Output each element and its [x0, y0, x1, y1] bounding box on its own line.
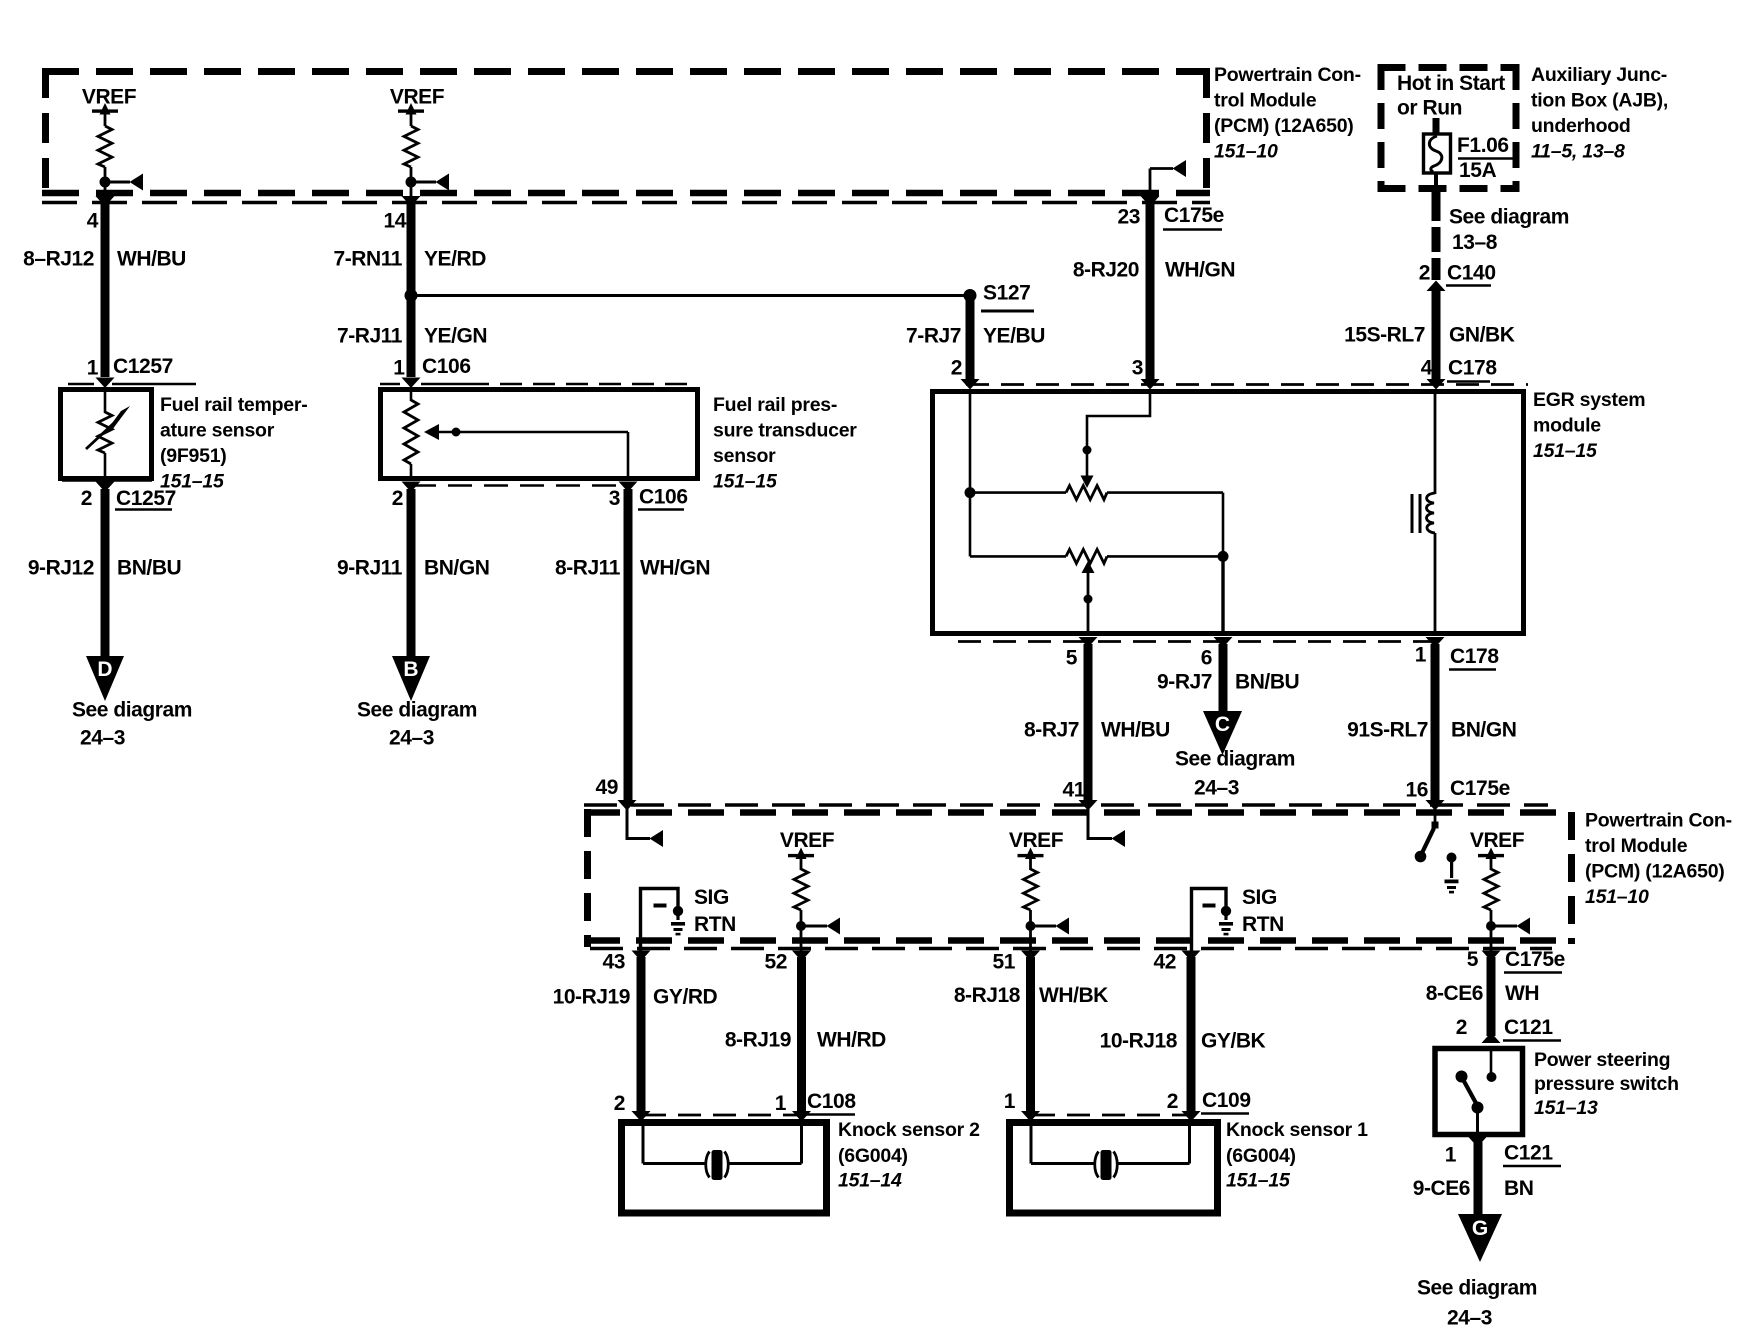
connector C121 pin 1 — [1468, 1137, 1487, 1148]
svg-text:See diagram: See diagram — [1417, 1277, 1537, 1300]
floating ground (pin 16) — [1445, 853, 1459, 894]
svg-text:49: 49 — [595, 776, 618, 799]
wire 8-RJ20 WH/GN (pin 23) — [1149, 169, 1152, 203]
connector line C175e below bottom PCM — [590, 947, 1552, 950]
svg-text:GY/RD: GY/RD — [653, 986, 718, 1009]
svg-text:G: G — [1472, 1217, 1488, 1240]
wire 7-RJ7 YE/BU — [966, 296, 975, 385]
svg-text:151–15: 151–15 — [1533, 440, 1598, 462]
svg-text:C175e: C175e — [1164, 204, 1224, 227]
svg-text:2: 2 — [1456, 1016, 1467, 1039]
svg-text:Power steering: Power steering — [1534, 1049, 1670, 1071]
svg-text:1: 1 — [393, 357, 405, 380]
svg-text:C121: C121 — [1504, 1016, 1553, 1039]
svg-text:BN/BU: BN/BU — [1235, 671, 1299, 694]
svg-text:151–14: 151–14 — [838, 1170, 902, 1192]
svg-text:C1257: C1257 — [116, 487, 176, 510]
svg-text:4: 4 — [1421, 357, 1433, 380]
svg-text:pressure switch: pressure switch — [1534, 1073, 1679, 1095]
pin 6 internal lead — [1221, 556, 1224, 631]
svg-text:VREF: VREF — [390, 86, 445, 109]
PCM top module box (dashed) — [42, 68, 1210, 196]
thermistor symbol (9F951) — [98, 412, 112, 453]
svg-text:C121: C121 — [1504, 1142, 1553, 1165]
wire 8-CE6 WH — [1487, 957, 1496, 1036]
svg-text:8-RJ18: 8-RJ18 — [954, 984, 1021, 1007]
svg-text:WH: WH — [1505, 982, 1539, 1005]
svg-text:sure transducer: sure transducer — [713, 420, 857, 442]
wire 9-RJ11 BN/GN — [407, 489, 416, 657]
svg-text:52: 52 — [764, 951, 787, 974]
svg-text:9-RJ7: 9-RJ7 — [1157, 671, 1212, 694]
svg-text:EGR system: EGR system — [1533, 389, 1645, 411]
svg-text:24–3: 24–3 — [1447, 1307, 1492, 1328]
svg-text:151–13: 151–13 — [1534, 1097, 1598, 1119]
svg-text:C175e: C175e — [1450, 777, 1510, 800]
svg-text:3: 3 — [609, 487, 620, 510]
svg-text:13–8: 13–8 — [1452, 231, 1498, 254]
wire 8-RJ11 WH/GN — [624, 489, 633, 803]
svg-text:RTN: RTN — [1242, 913, 1284, 936]
wire 7-RN11 YE/RD — [407, 203, 416, 296]
svg-text:C175e: C175e — [1505, 948, 1565, 971]
svg-text:Fuel rail pres-: Fuel rail pres- — [713, 394, 837, 416]
svg-text:F1.06: F1.06 — [1457, 134, 1509, 157]
knock sensor 2 piezo element — [643, 1126, 802, 1180]
svg-text:11–5, 13–8: 11–5, 13–8 — [1531, 141, 1625, 163]
wire 15S-RL7 GN/BK — [1432, 288, 1441, 385]
svg-text:tion Box (AJB),: tion Box (AJB), — [1531, 90, 1668, 112]
svg-text:15A: 15A — [1459, 159, 1497, 182]
svg-text:151–10: 151–10 — [1214, 141, 1278, 163]
svg-text:See diagram: See diagram — [72, 699, 192, 722]
svg-text:2: 2 — [951, 357, 962, 380]
connector C121 pin 2 — [1482, 1033, 1501, 1044]
off-page arrow D — [86, 656, 124, 701]
wire 9-RJ12 BN/BU — [101, 489, 110, 657]
svg-text:2: 2 — [614, 1092, 625, 1115]
splice junction dot on wire 14 — [405, 289, 418, 302]
internal arrow pin 5 — [1491, 925, 1517, 928]
svg-text:See diagram: See diagram — [357, 699, 477, 722]
Auxiliary Junction Box (dashed) — [1378, 64, 1520, 192]
svg-text:8-CE6: 8-CE6 — [1426, 982, 1483, 1005]
resistor VREF pull-up (pin 4) — [98, 126, 112, 167]
EGR pin 2 internal lead — [969, 389, 972, 493]
svg-text:C178: C178 — [1448, 357, 1497, 380]
EGR internal resistor (upper) — [970, 491, 1066, 494]
junction dot pin14 — [406, 177, 417, 188]
svg-text:C1257: C1257 — [113, 355, 173, 378]
connector C109 — [1032, 1114, 1189, 1117]
svg-text:1: 1 — [1445, 1144, 1457, 1167]
svg-text:151–10: 151–10 — [1585, 886, 1649, 908]
svg-text:7-RJ7: 7-RJ7 — [906, 325, 961, 348]
svg-text:1: 1 — [1004, 1090, 1016, 1113]
pin 49 connector arrow — [618, 800, 637, 811]
svg-text:(PCM) (12A650): (PCM) (12A650) — [1585, 861, 1725, 883]
wiper arrow — [438, 431, 628, 434]
svg-text:41: 41 — [1062, 779, 1085, 802]
resistor VREF pull-up (pin 52) — [794, 869, 808, 910]
svg-text:43: 43 — [602, 951, 625, 974]
svg-text:WH/BU: WH/BU — [1101, 719, 1170, 742]
pin 4 connector arrow — [96, 196, 115, 207]
svg-text:YE/GN: YE/GN — [424, 325, 487, 348]
wire 7-RJ11 YE/GN — [407, 296, 416, 377]
svg-text:SIG: SIG — [1242, 886, 1277, 909]
svg-text:16: 16 — [1405, 779, 1428, 802]
wire 8-RJ19 WH/RD — [797, 957, 806, 1114]
ground SIG RTN (pin 43) — [641, 889, 686, 953]
connector line C175e above bottom PCM — [584, 803, 1548, 806]
svg-text:WH/GN: WH/GN — [640, 557, 710, 580]
svg-text:VREF: VREF — [1470, 829, 1525, 852]
svg-text:SIG: SIG — [694, 886, 729, 909]
Knock sensor 2 box — [622, 1123, 827, 1214]
svg-text:8-RJ19: 8-RJ19 — [725, 1029, 791, 1052]
svg-text:15S-RL7: 15S-RL7 — [1344, 324, 1425, 347]
EGR system module box — [933, 392, 1524, 634]
svg-text:5: 5 — [1467, 948, 1479, 971]
internal switch pin 16 — [1434, 806, 1437, 822]
svg-text:5: 5 — [1066, 647, 1078, 670]
resistor VREF pull-up (pin 14) — [404, 126, 418, 167]
svg-text:ature sensor: ature sensor — [160, 420, 275, 442]
wire 91S-RL7 BN/GN — [1431, 644, 1440, 803]
connector line C175e under top PCM — [42, 201, 1210, 204]
label Fuel rail temperature sensor — [160, 394, 307, 493]
wire 10-RJ19 GY/RD — [637, 957, 646, 1114]
Knock sensor 1 box — [1010, 1123, 1218, 1214]
svg-text:3: 3 — [1132, 357, 1143, 380]
pin 16 connector arrow — [1426, 800, 1445, 811]
svg-text:sensor: sensor — [713, 445, 776, 467]
svg-text:1: 1 — [1415, 644, 1427, 667]
svg-text:8-RJ11: 8-RJ11 — [555, 557, 621, 580]
connector C108 — [643, 1114, 800, 1117]
svg-text:(6G004): (6G004) — [838, 1145, 908, 1167]
internal arrow pin 49 — [627, 806, 650, 839]
PCM label (top right) — [1214, 64, 1361, 163]
connector C140 pin 2 — [1427, 281, 1446, 292]
svg-text:2: 2 — [81, 487, 92, 510]
PCM bottom module box (dashed) — [584, 809, 1572, 947]
Knock sensor 2 label — [838, 1119, 980, 1192]
svg-text:7-RN11: 7-RN11 — [333, 248, 402, 271]
svg-text:C106: C106 — [639, 486, 688, 509]
wire 9-RJ7 BN/BU — [1219, 644, 1228, 713]
potentiometer resistor — [404, 400, 418, 464]
svg-text:WH/BK: WH/BK — [1039, 984, 1108, 1007]
svg-text:2: 2 — [1419, 262, 1430, 285]
svg-text:24–3: 24–3 — [389, 727, 434, 750]
svg-text:C140: C140 — [1447, 262, 1496, 285]
fuse F1.06 15A — [1424, 118, 1451, 173]
svg-text:Powertrain Con-: Powertrain Con- — [1585, 810, 1732, 832]
svg-text:YE/RD: YE/RD — [424, 248, 486, 271]
svg-text:91S-RL7: 91S-RL7 — [1347, 719, 1428, 742]
svg-text:7-RJ11: 7-RJ11 — [337, 325, 403, 348]
svg-text:24–3: 24–3 — [80, 727, 125, 750]
internal arrow pin 4 — [105, 181, 130, 184]
svg-text:underhood: underhood — [1531, 115, 1631, 137]
svg-text:8–RJ12: 8–RJ12 — [23, 248, 94, 271]
svg-text:151–15: 151–15 — [1226, 1170, 1291, 1192]
svg-text:See diagram: See diagram — [1449, 206, 1569, 229]
svg-text:Knock sensor 1: Knock sensor 1 — [1226, 1119, 1368, 1141]
Knock sensor 1 label — [1226, 1119, 1368, 1192]
wire to S127 — [411, 294, 970, 297]
svg-text:6: 6 — [1201, 647, 1212, 670]
wire 8-RJ7 WH/BU — [1084, 644, 1093, 803]
svg-text:(6G004): (6G004) — [1226, 1145, 1296, 1167]
Fuel rail temperature sensor box — [61, 390, 152, 479]
wire 10-RJ18 GY/BK — [1187, 957, 1196, 1114]
connector C1257 pin 2 — [62, 479, 152, 481]
svg-text:BN/GN: BN/GN — [1451, 719, 1516, 742]
svg-text:Powertrain Con-: Powertrain Con- — [1214, 64, 1361, 86]
svg-text:9-RJ11: 9-RJ11 — [337, 557, 403, 580]
Fuel rail pressure transducer sensor box — [381, 390, 698, 479]
wire 9-CE6 BN — [1474, 1142, 1483, 1215]
svg-text:module: module — [1533, 415, 1601, 437]
svg-text:8-RJ7: 8-RJ7 — [1024, 719, 1079, 742]
svg-text:4: 4 — [87, 210, 99, 233]
wiper of lower resistor to pin 5 — [1082, 561, 1095, 573]
svg-text:B: B — [403, 658, 418, 681]
off-page arrow B — [392, 656, 430, 701]
svg-text:23: 23 — [1117, 206, 1140, 229]
EGR pin 3 internal lead to wiper — [1087, 389, 1150, 479]
ground SIG RTN (pin 42) — [1192, 889, 1234, 953]
svg-text:151–15: 151–15 — [713, 471, 778, 493]
svg-text:BN/GN: BN/GN — [424, 557, 489, 580]
right vertical between resistors — [1222, 493, 1225, 557]
svg-text:C178: C178 — [1450, 645, 1499, 668]
svg-text:(PCM) (12A650): (PCM) (12A650) — [1214, 115, 1354, 137]
svg-text:trol Module: trol Module — [1585, 835, 1688, 857]
Power steering label — [1534, 1049, 1679, 1119]
svg-text:1: 1 — [775, 1092, 787, 1115]
svg-text:14: 14 — [383, 210, 406, 233]
svg-text:10-RJ18: 10-RJ18 — [1100, 1030, 1178, 1053]
svg-text:WH/BU: WH/BU — [117, 248, 186, 271]
svg-text:Fuel rail temper-: Fuel rail temper- — [160, 394, 307, 416]
svg-text:VREF: VREF — [780, 829, 835, 852]
svg-text:8-RJ20: 8-RJ20 — [1073, 259, 1139, 282]
internal arrow pin 14 — [411, 181, 436, 184]
connector line C178 above EGR — [966, 383, 1528, 386]
pin 14 connector arrow — [402, 196, 421, 207]
svg-text:24–3: 24–3 — [1194, 777, 1239, 800]
svg-text:RTN: RTN — [694, 913, 736, 936]
left vertical between resistors — [969, 493, 972, 557]
resistor VREF pull-up (pin 51) — [1024, 869, 1038, 910]
junction dot — [965, 487, 976, 498]
svg-text:WH/RD: WH/RD — [817, 1029, 886, 1052]
EGR internal resistor (lower) — [970, 555, 1066, 558]
internal arrow pin 51 — [1031, 925, 1057, 928]
svg-text:42: 42 — [1153, 951, 1176, 974]
splice S127 — [964, 289, 977, 302]
svg-text:C108: C108 — [807, 1090, 856, 1113]
junction dot pin4 — [100, 177, 111, 188]
Power steering pressure switch box — [1435, 1049, 1523, 1135]
svg-text:GN/BK: GN/BK — [1449, 324, 1515, 347]
connector line C178 below EGR — [958, 640, 1440, 643]
svg-text:See diagram: See diagram — [1175, 748, 1295, 771]
svg-text:9-CE6: 9-CE6 — [1413, 1177, 1470, 1200]
svg-text:1: 1 — [87, 357, 99, 380]
svg-text:Auxiliary Junc-: Auxiliary Junc- — [1531, 64, 1667, 86]
svg-text:51: 51 — [992, 951, 1015, 974]
EGR solenoid coil — [1434, 389, 1437, 494]
svg-text:GY/BK: GY/BK — [1201, 1030, 1266, 1053]
svg-text:C106: C106 — [422, 355, 471, 378]
wire 8-RJ12 WH/BU — [101, 203, 110, 377]
svg-text:VREF: VREF — [1009, 829, 1064, 852]
svg-text:9-RJ12: 9-RJ12 — [28, 557, 94, 580]
svg-text:C109: C109 — [1202, 1089, 1251, 1112]
svg-text:S127: S127 — [983, 282, 1030, 305]
switch (power steering) — [1456, 1046, 1497, 1133]
svg-text:Knock sensor 2: Knock sensor 2 — [838, 1119, 980, 1141]
resistor VREF pull-up (pin 5) — [1484, 869, 1498, 910]
svg-text:10-RJ19: 10-RJ19 — [553, 986, 630, 1009]
svg-text:Hot in Start: Hot in Start — [1397, 72, 1505, 95]
svg-text:VREF: VREF — [82, 86, 137, 109]
wire from fuse (dashed off-page) — [1434, 173, 1438, 189]
svg-text:D: D — [97, 658, 112, 681]
internal arrow pin 23 — [1173, 160, 1187, 177]
svg-text:or Run: or Run — [1397, 97, 1462, 120]
internal arrow pin 41 — [1088, 806, 1112, 839]
svg-text:2: 2 — [392, 487, 403, 510]
svg-text:C: C — [1215, 713, 1230, 736]
pin 43/52/51/42/5 connector arrows — [632, 951, 651, 962]
PCM label (bottom right) — [1585, 810, 1732, 909]
off-page arrow C — [1203, 711, 1242, 755]
off-page arrow G — [1458, 1214, 1502, 1262]
svg-text:(9F951): (9F951) — [160, 445, 227, 467]
svg-text:trol Module: trol Module — [1214, 90, 1317, 112]
internal arrow pin 52 — [801, 925, 827, 928]
svg-text:YE/BU: YE/BU — [983, 325, 1045, 348]
connector C106 pins 2,3 — [412, 484, 627, 487]
wire 8-RJ18 WH/BK — [1026, 957, 1035, 1114]
svg-text:BN: BN — [1504, 1177, 1533, 1200]
AJB label — [1531, 64, 1668, 163]
knock sensor 1 piezo element — [1031, 1126, 1190, 1180]
label Fuel rail pressure transducer sensor — [713, 394, 857, 493]
svg-text:WH/GN: WH/GN — [1165, 259, 1235, 282]
svg-text:2: 2 — [1167, 1090, 1178, 1113]
svg-text:BN/BU: BN/BU — [117, 557, 181, 580]
EGR label — [1533, 389, 1645, 462]
pin 41 connector arrow — [1079, 800, 1098, 811]
